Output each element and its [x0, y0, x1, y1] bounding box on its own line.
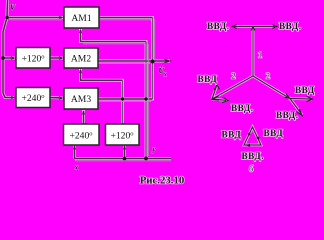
- svg-text:AM3: AM3: [71, 94, 91, 105]
- svg-text:ВВД.: ВВД.: [231, 103, 254, 113]
- svg-text:AM2: AM2: [71, 54, 91, 65]
- svg-text:ВВД.: ВВД.: [242, 151, 265, 161]
- svg-text:ВВД: ВВД: [198, 74, 218, 84]
- svg-text:+240o: +240o: [21, 93, 44, 104]
- svg-text:2: 2: [266, 72, 270, 81]
- svg-text:б: б: [249, 164, 253, 174]
- svg-text:ВВД: ВВД: [222, 130, 242, 140]
- svg-text:x: x: [74, 163, 79, 172]
- svg-text:1: 1: [258, 51, 262, 60]
- svg-text:ВВД: ВВД: [264, 128, 284, 138]
- svg-text:+240o: +240o: [69, 131, 92, 142]
- svg-text:AM1: AM1: [71, 13, 91, 24]
- svg-text:+120o: +120o: [110, 131, 133, 142]
- svg-text:V: V: [10, 3, 16, 12]
- svg-text:ВВД: ВВД: [295, 85, 315, 95]
- svg-text:ВВД.: ВВД.: [279, 21, 302, 31]
- svg-text:Рис.23.10: Рис.23.10: [140, 175, 185, 187]
- svg-text:+120o: +120o: [21, 54, 44, 65]
- svg-text:y: y: [152, 145, 157, 154]
- svg-text:ВВД.: ВВД.: [207, 21, 230, 31]
- svg-text:ВВД.: ВВД.: [276, 110, 299, 120]
- svg-text:2: 2: [232, 72, 236, 81]
